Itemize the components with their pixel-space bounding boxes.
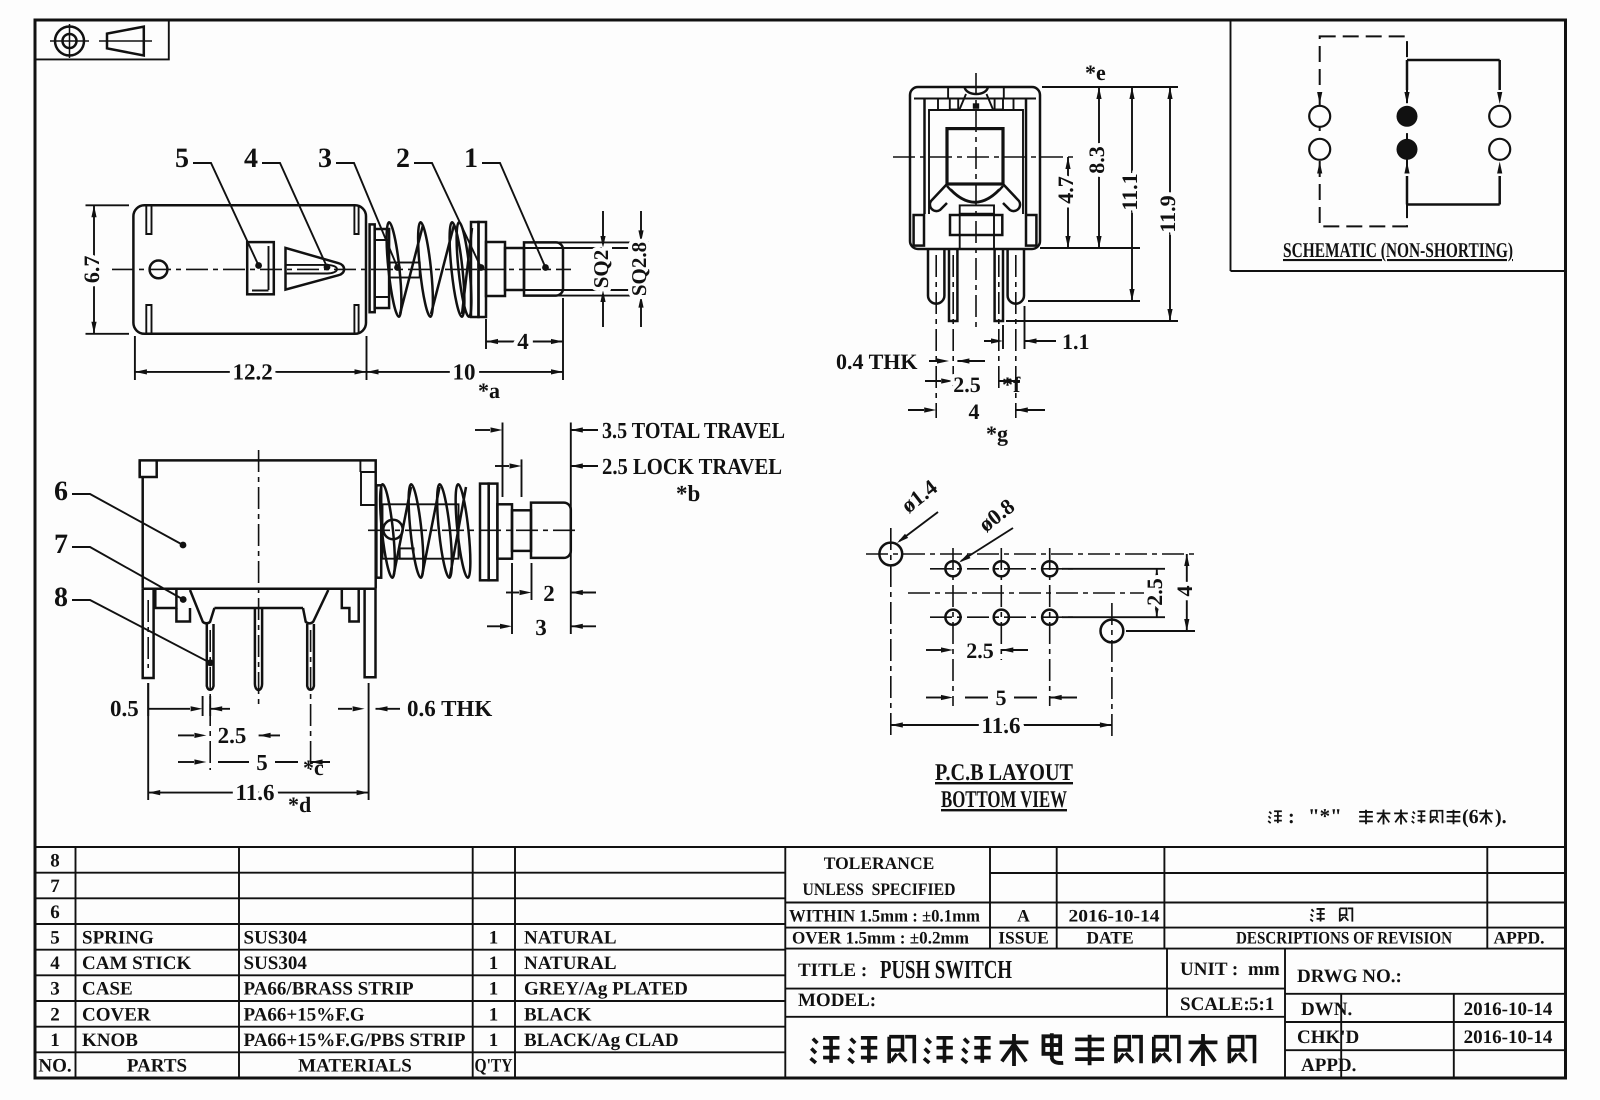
svg-text:6: 6 (54, 476, 68, 507)
top funnel right (987, 94, 994, 110)
inner top line (914, 98, 1036, 100)
svg-text:3: 3 (50, 979, 60, 1000)
svg-text:2.5 LOCK TRAVEL: 2.5 LOCK TRAVEL (602, 454, 782, 479)
svg-text:3: 3 (535, 615, 547, 640)
svg-text:PARTS: PARTS (127, 1056, 187, 1077)
note hanzi ge (1479, 809, 1493, 824)
svg-text::: : (1288, 806, 1295, 828)
svg-text:NO.: NO. (38, 1056, 71, 1077)
case bottom edge (143, 588, 376, 591)
hanzi chu ban (first edition) (1310, 908, 1352, 921)
svg-text:OVER 1.5mm : ±0.2mm: OVER 1.5mm : ±0.2mm (792, 928, 969, 948)
svg-text:10: 10 (453, 360, 476, 385)
arrow top left (1317, 92, 1322, 104)
pcb hole big left (879, 543, 902, 566)
dim 2.5 arrows (925, 378, 1020, 383)
pin1 centerline (147, 600, 149, 668)
pcb centerline row1 (930, 568, 1075, 570)
svg-text:11.9: 11.9 (1155, 195, 1180, 232)
svg-text:PA66+15%F.G: PA66+15%F.G (244, 1004, 365, 1025)
spring coil 3 (447, 222, 468, 318)
svg-text:*b: *b (676, 481, 700, 506)
svg-text:PA66/BRASS STRIP: PA66/BRASS STRIP (244, 979, 415, 1000)
svg-text:1: 1 (489, 953, 499, 974)
contact arc outer (947, 186, 1003, 203)
front view horizontal centerline (893, 156, 1075, 158)
svg-text:8.3: 8.3 (1084, 146, 1109, 174)
dim 6.7 extension lines (86, 205, 130, 333)
leader 3 (336, 163, 401, 271)
inner wall left (923, 99, 926, 215)
svg-text:SUS304: SUS304 (244, 928, 308, 949)
washer v2 plate B (489, 484, 498, 581)
svg-text:5: 5 (996, 685, 1007, 710)
pcb hole big right (1101, 620, 1124, 643)
front body outline (910, 87, 1040, 249)
svg-text:3: 3 (318, 143, 332, 174)
right side tab (1026, 215, 1036, 246)
case top-right bracket (360, 460, 375, 505)
note hanzi zhu (1268, 811, 1282, 823)
svg-text:BLACK: BLACK (524, 1004, 592, 1025)
inner block below knob (960, 205, 994, 213)
svg-text:UNLESS SPECIFIED: UNLESS SPECIFIED (803, 879, 956, 899)
pcb centerline col3 (1049, 548, 1051, 706)
svg-text:BOTTOM VIEW: BOTTOM VIEW (941, 787, 1067, 813)
svg-text:2016-10-14: 2016-10-14 (1069, 906, 1160, 926)
pcb ext row1 right (1062, 568, 1165, 570)
svg-text:1: 1 (489, 1030, 499, 1051)
left pin (949, 249, 957, 321)
svg-text:DRWG NO.:: DRWG NO.: (1297, 966, 1402, 987)
leader 5 (193, 163, 262, 269)
spring v2 coil 1 (377, 484, 398, 579)
pcb small hole r1c3 (1042, 561, 1057, 576)
cover skirt left step (176, 608, 190, 622)
svg-text:NATURAL: NATURAL (524, 928, 617, 949)
spring (part 5) coil 1 (384, 222, 405, 318)
dim 11.6 ext lines (148, 683, 368, 800)
svg-text:SQ2.8: SQ2.8 (627, 242, 651, 296)
dim pcb 2.5 vertical (1154, 569, 1159, 617)
case cover slot top-left (146, 206, 151, 234)
base band inner lines (960, 214, 994, 249)
svg-text:*a: *a (478, 378, 500, 403)
svg-text:11.1: 11.1 (1117, 173, 1142, 210)
dim 3 arrows (487, 624, 596, 629)
svg-text:5: 5 (256, 750, 268, 775)
case hole (150, 261, 168, 279)
plunger shaft (behind spring) (390, 263, 420, 278)
right leg centerline (1015, 255, 1017, 418)
pin 1 flat left (143, 589, 154, 678)
leader 4 (262, 163, 330, 270)
svg-text:8: 8 (54, 582, 68, 613)
wire arrow bottom mid (1404, 162, 1409, 205)
tolerance values (789, 906, 980, 948)
latch divider left (938, 88, 948, 111)
dim 11.9 (1167, 87, 1172, 321)
dim 11.6 line arrows (148, 790, 368, 795)
knob v2 (531, 503, 571, 558)
svg-text:1: 1 (50, 1030, 60, 1051)
plunger body v2 (383, 504, 459, 558)
svg-text:SPRING: SPRING (82, 928, 154, 949)
pin 4 round right (307, 624, 314, 690)
schematic dashed knob box (1320, 36, 1407, 226)
dim 3.5 total travel arrows (475, 427, 598, 432)
leader 8 (72, 600, 214, 666)
svg-text:12.2: 12.2 (232, 360, 272, 385)
svg-text:8: 8 (50, 851, 60, 872)
svg-text:COVER: COVER (82, 1004, 151, 1025)
dim 10 ext line right (562, 298, 564, 380)
left wing cutout (930, 184, 947, 211)
cover skirt right step (342, 589, 359, 622)
dim 1.1 arrows (984, 338, 1056, 343)
dim SQ2 arrows (600, 211, 605, 327)
title block lines (785, 949, 1565, 1078)
case (part 3) body (133, 205, 366, 333)
centerline view1 (112, 268, 571, 270)
svg-text:0.6 THK: 0.6 THK (407, 696, 492, 721)
spring v2 coil 3 (434, 484, 455, 579)
svg-text:*f: *f (1002, 372, 1021, 397)
spring v2 back wire 2 (422, 487, 440, 576)
svg-text:MATERIALS: MATERIALS (298, 1056, 412, 1077)
ext line y301 (1028, 300, 1140, 302)
dim 2 arrows (506, 590, 596, 595)
dim 2.5 v2 arrows (178, 733, 280, 738)
svg-text:CAM STICK: CAM STICK (82, 953, 191, 974)
knob front face (947, 129, 1003, 184)
svg-text:).: ). (1495, 806, 1507, 828)
qty column (475, 928, 513, 1077)
tolerance block lines (990, 847, 1487, 949)
spring coil 4 (454, 222, 475, 318)
right pin centerline (998, 255, 1000, 392)
svg-text:KNOB: KNOB (82, 1030, 138, 1051)
svg-text:11.6: 11.6 (982, 713, 1021, 738)
svg-text:*e: *e (1085, 60, 1106, 85)
svg-text:APPD.: APPD. (1301, 1055, 1356, 1076)
ext line y248 (1040, 247, 1140, 249)
svg-text:7: 7 (50, 876, 60, 897)
dim pcb 11.6 line (891, 722, 1112, 727)
svg-text:CASE: CASE (82, 979, 133, 1000)
svg-text:4: 4 (1172, 586, 1197, 597)
svg-text:4: 4 (50, 953, 60, 974)
case top-left tab (140, 460, 157, 477)
spring v2 back wire 3 (450, 487, 466, 576)
svg-text:NATURAL: NATURAL (524, 953, 617, 974)
materials (244, 928, 466, 1052)
svg-text:SQ2: SQ2 (589, 250, 613, 289)
case cover slot top-right (354, 206, 358, 234)
revision row text (998, 906, 1544, 948)
svg-text:1: 1 (489, 928, 499, 949)
svg-text:0.4 THK: 0.4 THK (836, 349, 918, 374)
svg-text:TITLE :: TITLE : (798, 960, 867, 981)
plunger step v2 (497, 504, 512, 558)
plunger neck v2 (512, 510, 531, 551)
svg-text:UNIT :: UNIT : (1180, 959, 1238, 980)
top center nub (973, 103, 979, 109)
wire arrow bottom right (1497, 162, 1502, 205)
row numbers (38, 851, 71, 1077)
dim 2.5 lock travel arrows (495, 463, 598, 468)
svg-text:DWN.: DWN. (1301, 999, 1352, 1020)
washer plate B (479, 222, 487, 317)
latch tab left (950, 99, 958, 110)
washer v2 plate A (480, 484, 489, 581)
dim 4g arrows (908, 407, 1045, 412)
svg-text:P.C.B LAYOUT: P.C.B LAYOUT (935, 760, 1073, 786)
cover skirt left (155, 589, 176, 608)
svg-text:2: 2 (396, 143, 410, 174)
svg-text:SCHEMATIC (NON-SHORTING): SCHEMATIC (NON-SHORTING) (1283, 238, 1513, 262)
svg-text:ø1.4: ø1.4 (896, 474, 942, 517)
table top line (35, 846, 1566, 848)
company name hanzi (811, 1033, 1255, 1066)
pcb centerline col2 (1000, 548, 1002, 660)
dim 1.1 ext lines (1003, 306, 1025, 349)
svg-text:BLACK/Ag CLAD: BLACK/Ag CLAD (524, 1030, 679, 1051)
svg-text:1.1: 1.1 (1062, 329, 1090, 354)
dim 4.7 (1065, 157, 1070, 248)
schematic wire loop right (1407, 60, 1500, 205)
dim 8.3 (1096, 87, 1101, 248)
note hanzi chi (1431, 811, 1443, 824)
svg-text:TOLERANCE: TOLERANCE (824, 853, 935, 873)
parts table verticals (76, 847, 786, 1078)
mount plate v2 (376, 485, 381, 577)
travel ext line C (570, 423, 572, 635)
note hanzi cun (1447, 810, 1461, 824)
svg-text:mm: mm (1248, 959, 1280, 980)
note hanzi biao (1359, 810, 1373, 824)
svg-text:2.5: 2.5 (1142, 578, 1167, 606)
tooth funnel right (303, 590, 328, 623)
case mount plate (370, 224, 375, 312)
spring v2 back wire 1 (394, 487, 412, 576)
plunger step (486, 242, 505, 296)
cam stick (part 4) (286, 248, 345, 290)
case cover slot bottom-right (354, 305, 358, 333)
svg-text:5: 5 (175, 143, 189, 174)
spring coil 2 (415, 222, 436, 318)
projection symbol cone view (99, 27, 152, 56)
pcb centerline big right vertical (1111, 603, 1113, 740)
contact B1 (common, filled) (1397, 106, 1418, 127)
leader 2 (414, 163, 484, 271)
parts table horizontals (35, 873, 785, 1053)
svg-text:2016-10-14: 2016-10-14 (1464, 1027, 1553, 1048)
svg-text:5:1: 5:1 (1249, 994, 1274, 1015)
inner wall right (1025, 99, 1028, 215)
contact C1 (1489, 106, 1510, 127)
pin 2 round (207, 624, 214, 690)
spring back wire 2 (431, 225, 454, 314)
pcb ext y631 right (1126, 630, 1195, 632)
dim 6.7 line + arrows (91, 205, 96, 333)
dim pcb 4 vertical (1184, 554, 1189, 631)
svg-text:*d: *d (288, 792, 311, 817)
SQ2 extension lines (505, 248, 648, 290)
cover skirt right (357, 589, 360, 608)
svg-text:ISSUE: ISSUE (998, 928, 1049, 948)
svg-text:"*": "*" (1308, 804, 1342, 828)
right leg (1008, 249, 1024, 304)
view2 vertical centerline (258, 450, 260, 705)
dim pcb 5 arrows (926, 695, 1077, 700)
ext line y321 (1006, 320, 1178, 322)
svg-text:2.5: 2.5 (953, 372, 981, 397)
pcb small hole r1c2 (994, 561, 1009, 576)
svg-text:4.7: 4.7 (1053, 176, 1078, 204)
svg-text:1: 1 (489, 979, 499, 1000)
leader dia0.8 (958, 528, 1013, 565)
svg-text:PUSH SWITCH: PUSH SWITCH (880, 955, 1012, 984)
latch divider right (1004, 88, 1014, 111)
front view vertical centerline (975, 73, 977, 330)
view2 spring axis centerline (368, 529, 580, 531)
svg-text:11.6: 11.6 (236, 780, 275, 805)
pcb centerline row2 (930, 616, 1075, 618)
contact C2 (1489, 139, 1510, 160)
spring back wire 3 (462, 228, 472, 314)
ext line top (1042, 86, 1178, 88)
pcb centerline big left vertical (890, 528, 892, 740)
top funnel left (960, 94, 967, 110)
svg-text:4: 4 (517, 329, 529, 354)
left leg (928, 249, 944, 304)
svg-text:CHK'D: CHK'D (1297, 1027, 1359, 1048)
top dome notch (965, 88, 988, 95)
note hanzi jian (1412, 811, 1426, 823)
note hanzi guan (1394, 809, 1408, 824)
case cover slot bottom-left (146, 305, 151, 333)
case body outline (140, 460, 376, 588)
svg-text:GREY/Ag PLATED: GREY/Ag PLATED (524, 979, 688, 1000)
svg-text:DATE: DATE (1086, 928, 1133, 948)
svg-text:3.5 TOTAL TRAVEL: 3.5 TOTAL TRAVEL (602, 418, 785, 443)
svg-text:DESCRIPTIONS OF REVISION: DESCRIPTIONS OF REVISION (1236, 928, 1452, 948)
cam pin circle (383, 520, 402, 539)
pin4 centerline (310, 630, 312, 770)
svg-text:2.5: 2.5 (218, 723, 247, 748)
svg-text:6: 6 (50, 902, 60, 923)
washer (part 2) plate A (471, 222, 479, 317)
base band (950, 215, 1002, 235)
contact A1 (1309, 106, 1330, 127)
svg-text:2.5: 2.5 (966, 638, 994, 663)
dim 11.1 (1129, 87, 1134, 301)
spring v2 coil 4 (453, 484, 474, 579)
latch tab right (995, 99, 1003, 110)
svg-text:2016-10-14: 2016-10-14 (1464, 999, 1553, 1020)
svg-text:SCALE:: SCALE: (1180, 994, 1250, 1015)
arrow bottom left (1317, 162, 1322, 174)
dim 12.2 line (135, 369, 367, 374)
dim 12.2 extension lines (135, 336, 367, 380)
svg-text:4: 4 (244, 143, 258, 174)
dim SQ2.8 arrows (638, 211, 643, 327)
svg-text:SUS304: SUS304 (244, 953, 308, 974)
pcb small hole r2c3 (1042, 610, 1057, 625)
threaded bushing (375, 229, 389, 308)
right wing cutout (1003, 184, 1020, 211)
svg-text:6.7: 6.7 (79, 256, 104, 284)
pin 5 flat right (365, 589, 376, 677)
cam arm (400, 548, 414, 558)
svg-text:*c: *c (303, 755, 324, 780)
pcb small hole r2c1 (945, 610, 960, 625)
schematic enclosure lines (1231, 20, 1566, 271)
svg-text:7: 7 (54, 529, 68, 560)
center band bottom (214, 607, 303, 610)
svg-text:PA66+15%F.G/PBS STRIP: PA66+15%F.G/PBS STRIP (244, 1030, 466, 1051)
left pin centerline (952, 255, 954, 392)
dim 0.5 ext and arrows (148, 683, 230, 716)
plunger neck (505, 248, 524, 290)
SQ2.8 extension lines (524, 242, 649, 295)
contact arc inner (951, 189, 999, 202)
right pin (995, 249, 1003, 321)
svg-text:5: 5 (50, 928, 60, 949)
svg-text:MODEL:: MODEL: (798, 990, 876, 1011)
revision horizontals (785, 873, 1565, 949)
spring back wire 1 (400, 225, 423, 314)
dim 5 arrows (178, 759, 330, 764)
svg-text:0.5: 0.5 (110, 696, 139, 721)
pin2 centerline (209, 630, 211, 770)
leader 6 (72, 494, 186, 548)
svg-text:*g: *g (986, 421, 1008, 446)
note hanzi shi (1377, 809, 1391, 824)
travel ext line A (502, 423, 504, 498)
pcb small hole r2c2 (994, 610, 1009, 625)
finish column (524, 928, 688, 1052)
left side tab (914, 215, 924, 246)
svg-text:Q'TY: Q'TY (475, 1056, 513, 1077)
pcb small hole r1c1 (945, 561, 960, 576)
svg-text:ø0.8: ø0.8 (974, 493, 1020, 536)
svg-text:2: 2 (50, 1004, 60, 1025)
contact A2 (1309, 139, 1330, 160)
pcb centerline mid axis (908, 592, 1144, 594)
tolerance text (803, 853, 956, 899)
leader dia1.4 (895, 512, 938, 545)
pcb centerline col1 (952, 548, 954, 706)
dim 2 ext line (531, 563, 533, 600)
dim 4 line (486, 339, 563, 344)
svg-text:1: 1 (464, 143, 478, 174)
dim 4 ext line (485, 319, 487, 349)
dim 10 line (367, 369, 564, 374)
pcb ext line y554 (866, 553, 1195, 555)
pin 3 middle (255, 608, 262, 690)
tooth funnel left (190, 590, 214, 623)
knob (part 1) (524, 242, 563, 295)
projection symbol box (35, 20, 169, 59)
leader 7 (72, 547, 187, 603)
dim 3 ext line (511, 563, 513, 634)
pcb ext row2 right (1062, 616, 1165, 618)
dim 0.4 THK arrows (929, 358, 985, 363)
svg-text:2: 2 (543, 581, 555, 606)
dim 0.6 THK arrows (338, 706, 400, 711)
